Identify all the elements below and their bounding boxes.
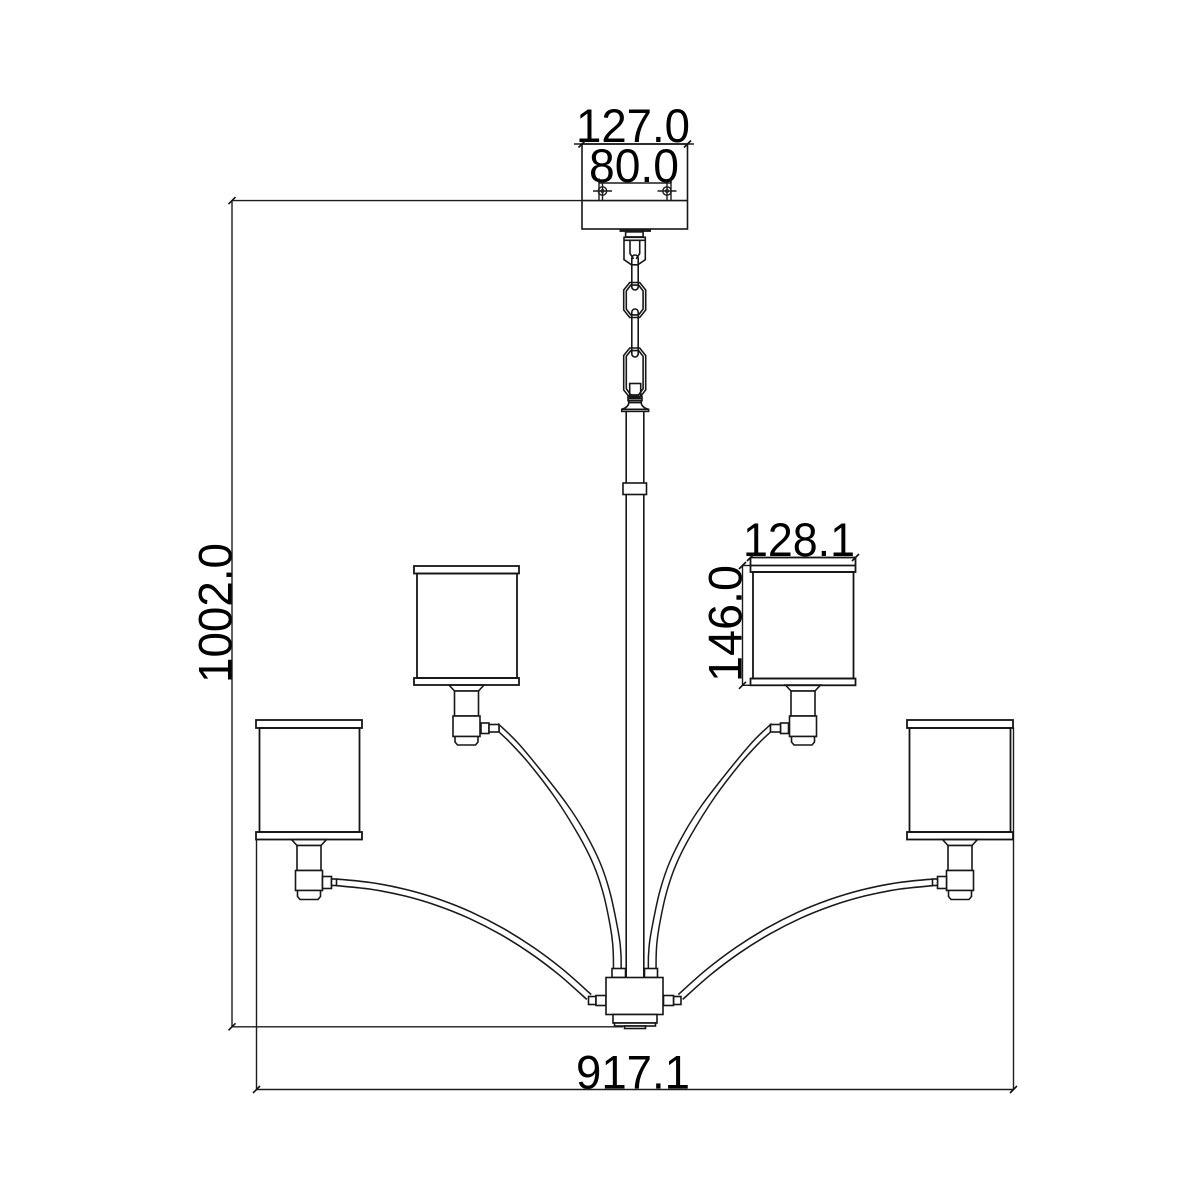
- svg-text:146.0: 146.0: [700, 565, 753, 682]
- svg-text:128.1: 128.1: [743, 514, 855, 567]
- svg-text:1002.0: 1002.0: [190, 543, 243, 683]
- svg-text:917.1: 917.1: [576, 1047, 690, 1100]
